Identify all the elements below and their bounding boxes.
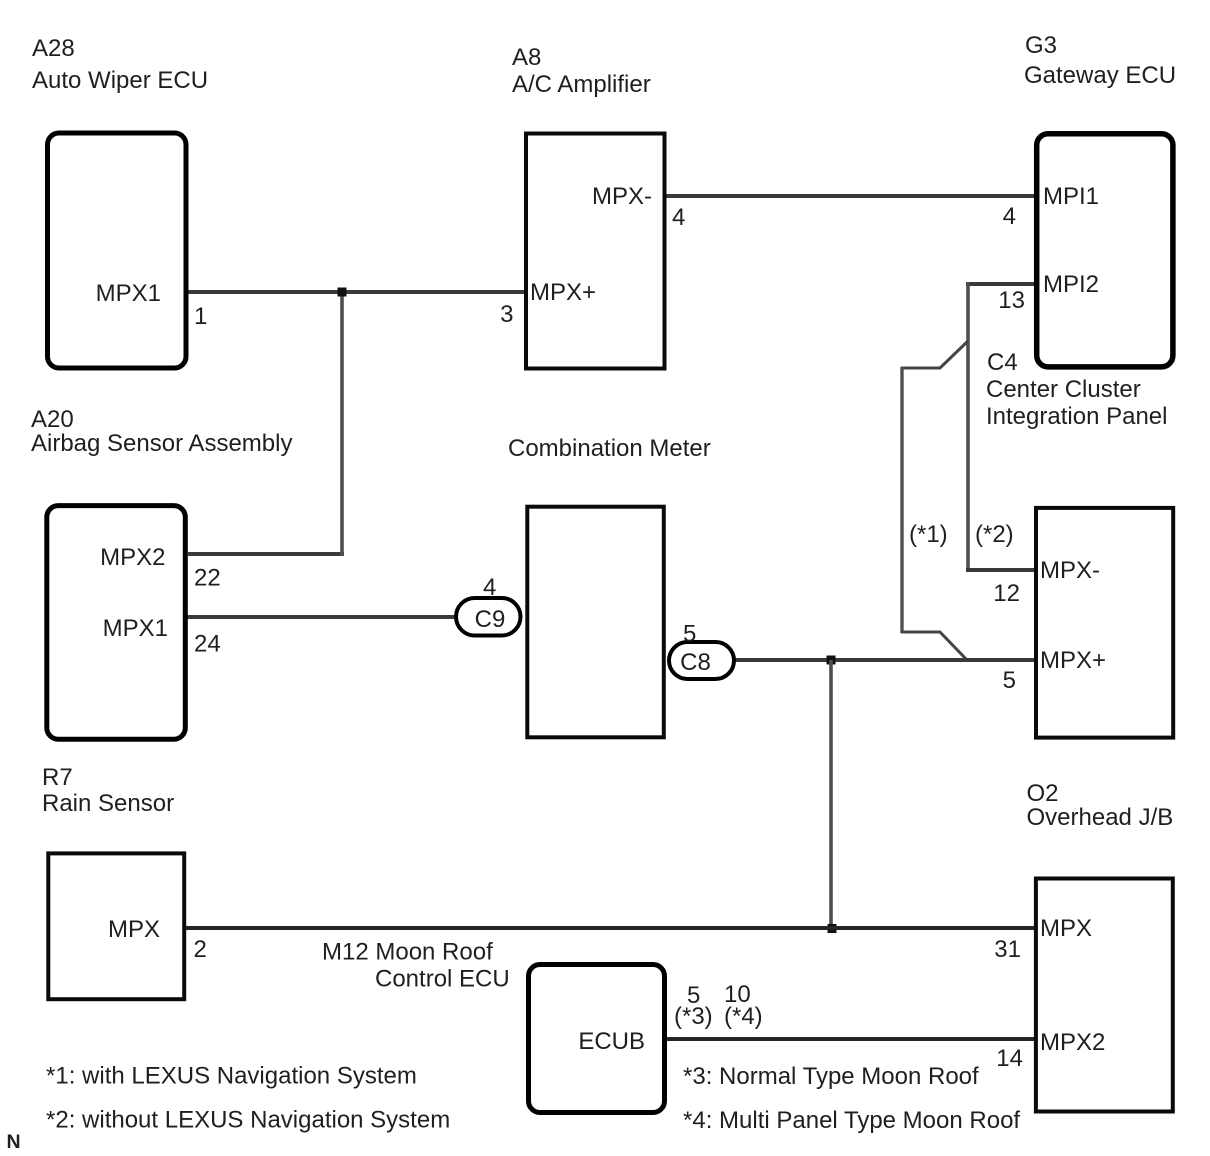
svg-text:A/C Amplifier: A/C Amplifier bbox=[512, 71, 651, 98]
svg-text:Overhead J/B: Overhead J/B bbox=[1027, 804, 1174, 831]
svg-text:(*3): (*3) bbox=[674, 1003, 713, 1030]
wire A8 MPX- to G3 MPI1 bbox=[664, 194, 1036, 198]
svg-text:31: 31 bbox=[994, 936, 1021, 963]
svg-text:*2: without LEXUS Navigation S: *2: without LEXUS Navigation System bbox=[46, 1107, 450, 1134]
node junction C8 wire bbox=[827, 656, 836, 665]
wire R7 MPX to O2 MPX bbox=[184, 926, 1036, 930]
svg-text:13: 13 bbox=[998, 287, 1025, 314]
wire C8 to C4 MPX+ bbox=[730, 658, 1036, 662]
svg-text:(*4): (*4) bbox=[724, 1003, 763, 1030]
svg-text:A20: A20 bbox=[31, 406, 74, 433]
svg-text:4: 4 bbox=[483, 574, 496, 601]
svg-text:O2: O2 bbox=[1027, 780, 1059, 807]
svg-text:Auto Wiper ECU: Auto Wiper ECU bbox=[32, 67, 208, 94]
svg-text:Combination Meter: Combination Meter bbox=[508, 435, 711, 462]
box O2 Overhead J/B bbox=[1036, 879, 1173, 1112]
svg-text:ECUB: ECUB bbox=[578, 1028, 645, 1055]
svg-text:Integration Panel: Integration Panel bbox=[986, 403, 1167, 430]
box C4 Center Cluster Integration Panel bbox=[1036, 508, 1173, 738]
box A20 Airbag Sensor Assembly bbox=[47, 506, 186, 740]
svg-text:*1: with LEXUS Navigation Syst: *1: with LEXUS Navigation System bbox=[46, 1063, 417, 1090]
svg-text:MPI2: MPI2 bbox=[1043, 271, 1099, 298]
svg-text:C9: C9 bbox=[475, 606, 506, 633]
svg-text:A28: A28 bbox=[32, 35, 75, 62]
wire A28 MPX1 to A8 MPX+ bbox=[186, 290, 527, 294]
svg-text:2: 2 bbox=[194, 936, 207, 963]
svg-text:R7: R7 bbox=[42, 764, 73, 791]
svg-text:24: 24 bbox=[194, 631, 221, 658]
node junction R7 wire bbox=[828, 924, 837, 933]
svg-text:G3: G3 bbox=[1025, 32, 1057, 59]
svg-text:MPI1: MPI1 bbox=[1043, 183, 1099, 210]
box M12 Moon Roof Control ECU bbox=[529, 965, 665, 1113]
svg-text:C8: C8 bbox=[680, 649, 711, 676]
svg-text:M12 Moon Roof: M12 Moon Roof bbox=[322, 939, 493, 966]
svg-text:Control ECU: Control ECU bbox=[375, 966, 510, 993]
svg-text:22: 22 bbox=[194, 565, 221, 592]
box Combination Meter bbox=[527, 507, 664, 738]
box A8 A/C Amplifier bbox=[526, 134, 665, 369]
svg-text:MPX1: MPX1 bbox=[103, 615, 168, 642]
svg-text:MPX1: MPX1 bbox=[96, 280, 161, 307]
svg-text:Airbag Sensor Assembly: Airbag Sensor Assembly bbox=[31, 430, 292, 457]
svg-text:5: 5 bbox=[1003, 667, 1016, 694]
svg-text:MPX-: MPX- bbox=[1040, 557, 1100, 584]
wire A20 MPX1 to C9 bbox=[186, 615, 470, 619]
svg-text:C4: C4 bbox=[987, 349, 1018, 376]
svg-text:MPX+: MPX+ bbox=[530, 279, 596, 306]
connector oval C8 bbox=[669, 642, 734, 679]
svg-text:N: N bbox=[7, 1131, 21, 1153]
wire *1 path diagonal branch bbox=[901, 341, 968, 368]
svg-text:1: 1 bbox=[194, 303, 207, 330]
wire G3 MPI2 to C4 MPX- (*2 path) bbox=[966, 282, 1036, 286]
wire M12 ECUB to O2 MPX2 bbox=[665, 1037, 1036, 1041]
svg-text:Rain Sensor: Rain Sensor bbox=[42, 790, 174, 817]
svg-text:4: 4 bbox=[1003, 203, 1016, 230]
box A28 Auto Wiper ECU bbox=[48, 133, 187, 368]
svg-text:MPX2: MPX2 bbox=[1040, 1029, 1105, 1056]
svg-text:(*2): (*2) bbox=[975, 521, 1014, 548]
svg-text:MPX: MPX bbox=[108, 916, 160, 943]
svg-text:MPX2: MPX2 bbox=[100, 544, 165, 571]
svg-text:MPX: MPX bbox=[1040, 915, 1092, 942]
wire vertical down from C8 junction bbox=[829, 660, 833, 928]
svg-text:A8: A8 bbox=[512, 44, 541, 71]
wire junction branch down to A20 MPX2 bbox=[188, 552, 344, 556]
box G3 Gateway ECU bbox=[1037, 134, 1173, 367]
svg-text:*3: Normal Type Moon Roof: *3: Normal Type Moon Roof bbox=[683, 1063, 979, 1090]
svg-text:Center Cluster: Center Cluster bbox=[986, 376, 1141, 403]
connector oval C9 bbox=[456, 598, 521, 636]
box R7 Rain Sensor bbox=[48, 853, 184, 999]
svg-text:MPX-: MPX- bbox=[592, 183, 652, 210]
svg-text:(*1): (*1) bbox=[909, 521, 948, 548]
svg-text:14: 14 bbox=[996, 1045, 1023, 1072]
svg-text:*4: Multi Panel Type Moon Roof: *4: Multi Panel Type Moon Roof bbox=[683, 1107, 1020, 1134]
svg-text:5: 5 bbox=[683, 621, 696, 648]
svg-text:3: 3 bbox=[500, 301, 513, 328]
node junction A28/A20 bbox=[338, 288, 347, 297]
svg-text:MPX+: MPX+ bbox=[1040, 647, 1106, 674]
svg-text:12: 12 bbox=[993, 580, 1020, 607]
svg-text:Gateway ECU: Gateway ECU bbox=[1024, 62, 1176, 89]
svg-text:4: 4 bbox=[672, 204, 685, 231]
